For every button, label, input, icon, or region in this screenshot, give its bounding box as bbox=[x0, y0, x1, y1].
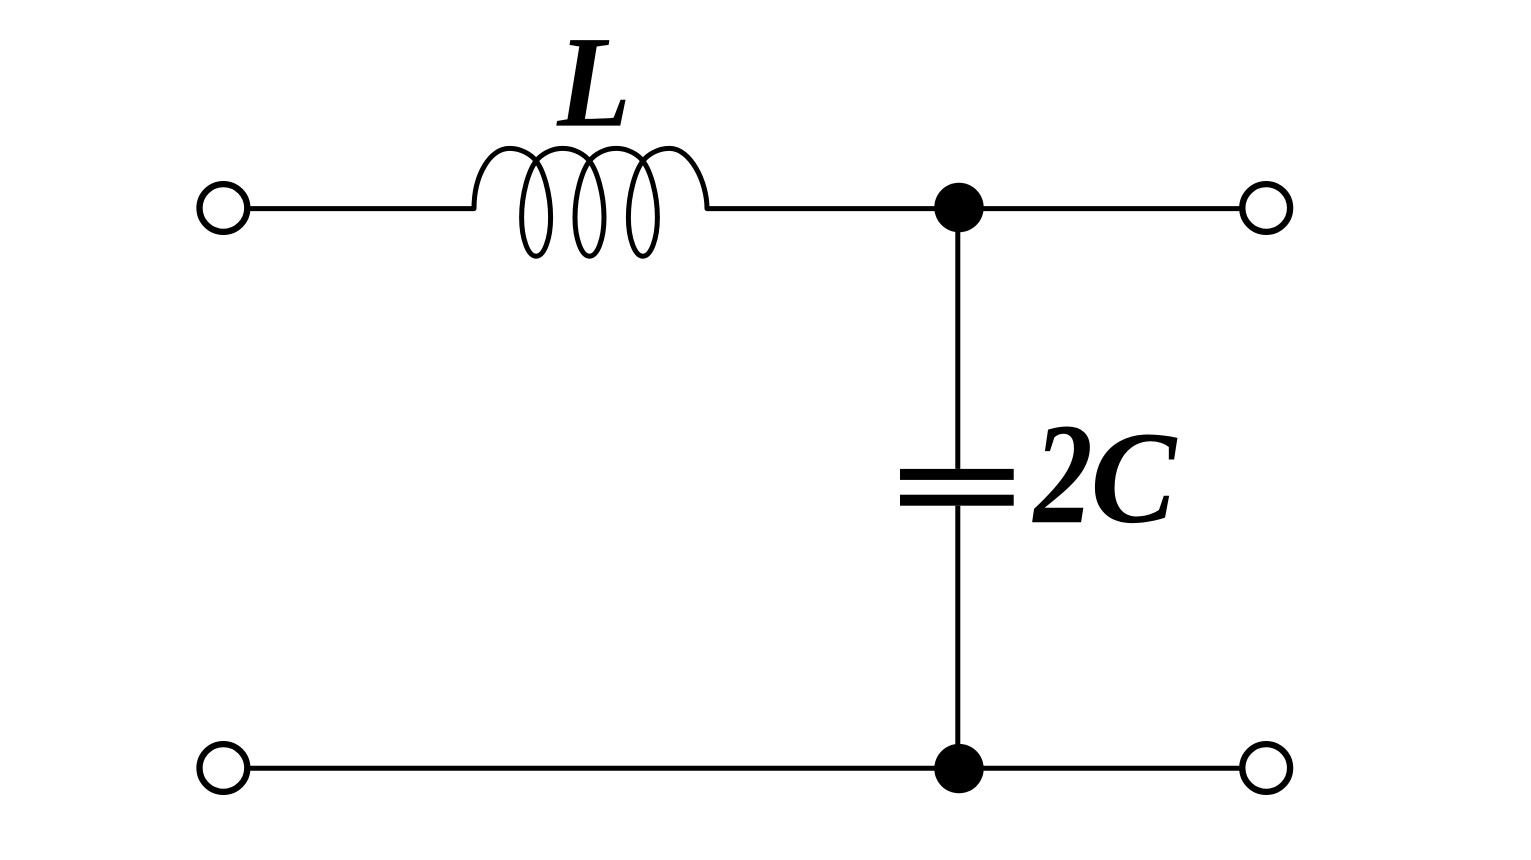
capacitor 2C bottom plate bbox=[900, 495, 1014, 506]
capacitor 2C top plate bbox=[900, 469, 1014, 480]
vertical wire capacitor bottom plate to bottom junction bbox=[955, 506, 960, 769]
svg-text:2: 2 bbox=[1032, 393, 1093, 554]
junction node bottom bbox=[934, 744, 983, 793]
label L (inductor) bbox=[556, 10, 631, 154]
junction node top bbox=[934, 183, 983, 232]
open terminal bottom-right bbox=[1242, 744, 1290, 792]
svg-text:C: C bbox=[1091, 405, 1179, 551]
wire top-left segment + inductor L coil + wire to junction bbox=[247, 206, 474, 211]
label 2C value: letter C bbox=[1091, 405, 1179, 551]
svg-text:L: L bbox=[556, 10, 631, 154]
vertical wire junction to capacitor top plate bbox=[955, 209, 960, 469]
open terminal bottom-left bbox=[200, 744, 248, 792]
wire from inductor to top junction and right terminal bbox=[707, 206, 1242, 211]
label 2C value: digit 2 bbox=[1032, 393, 1093, 554]
open terminal top-left bbox=[200, 184, 248, 232]
bottom wire bbox=[247, 766, 1242, 771]
open terminal top-right bbox=[1242, 184, 1290, 232]
inductor L (4-hump coil) bbox=[474, 148, 707, 256]
